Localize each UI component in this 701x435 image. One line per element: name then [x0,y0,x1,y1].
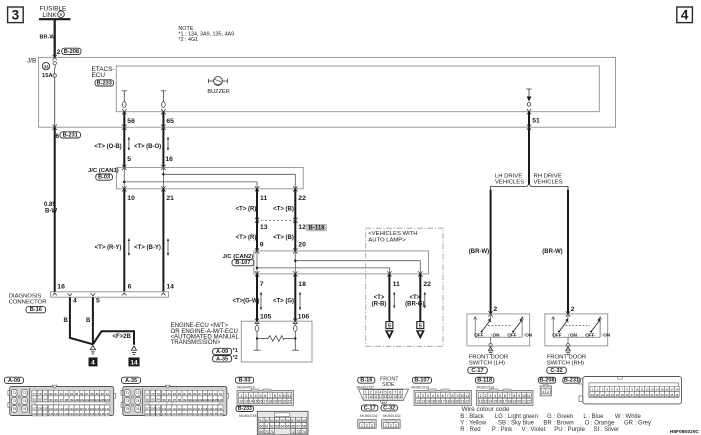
RH switch pin 2 [571,306,575,313]
LH switch pin 2 [493,306,497,313]
svg-text:C-17: C-17 [364,405,376,411]
svg-text:3: 3 [12,8,20,23]
svg-text:92: 92 [33,398,37,402]
page reference box 4 [677,7,693,23]
LH RH drive labels [495,174,563,186]
svg-text:76: 76 [136,407,140,411]
svg-text:14: 14 [130,359,138,366]
diagnosis connector caption [9,294,47,306]
svg-text:73: 73 [126,399,130,403]
svg-text:57: 57 [291,419,295,423]
twist arrow G [299,292,301,311]
svg-text:77: 77 [146,392,150,396]
svg-text:22: 22 [287,400,291,404]
connector diagram B-118 label [476,377,495,389]
svg-text:10: 10 [369,395,373,399]
wire label B left [64,318,69,324]
wire auto lamp pin 22 [419,274,421,322]
svg-text:5: 5 [259,394,261,398]
svg-text:84: 84 [70,392,74,396]
svg-text:B-03: B-03 [98,175,110,181]
svg-text:56: 56 [286,419,290,423]
svg-text:59: 59 [302,419,306,423]
svg-text:19: 19 [591,393,595,397]
connector diagram C-32 body [382,420,401,429]
svg-text:18: 18 [675,388,679,392]
svg-text:80: 80 [49,392,53,396]
connector diagram C-32 label [381,405,401,418]
svg-text:6: 6 [504,394,506,398]
svg-text:74: 74 [302,430,306,434]
joint connector J/C CAN2 box B-107 [254,251,429,274]
svg-text:BR-W: BR-W [40,35,56,41]
svg-text:15: 15 [431,400,435,404]
svg-text:A-35: A-35 [216,356,228,362]
svg-text:5: 5 [437,394,439,398]
wire pin 51 down to door switches [527,112,531,185]
svg-text:88: 88 [90,392,94,396]
svg-text:10: 10 [522,394,526,398]
svg-text:↑ON: ↑ON [490,332,500,337]
wire BR-W from fusible link to J/B [54,20,56,58]
svg-text:6: 6 [389,390,391,394]
svg-text:8: 8 [452,394,454,398]
svg-text:B-208: B-208 [539,378,554,384]
svg-text:32: 32 [655,393,659,397]
svg-text:2: 2 [485,394,487,398]
wire CAN1 pin 22 to B-118 pin 12 [294,189,296,221]
svg-text:B-208: B-208 [64,49,79,55]
svg-text:B-233: B-233 [97,80,112,86]
svg-text:SIDE: SIDE [382,382,395,388]
svg-text:58: 58 [297,419,301,423]
svg-text:93: 93 [38,398,42,402]
svg-text:124: 124 [43,412,48,416]
svg-text:69: 69 [260,430,264,434]
junction block J/B box [39,57,616,127]
connector diagram B-208 body [540,385,551,396]
svg-text:20: 20 [596,393,600,397]
svg-text:20: 20 [298,241,306,248]
svg-text:2: 2 [366,424,368,428]
wire entry crossing at J/B top [53,55,57,60]
drive split bracket [491,184,568,190]
svg-text:51: 51 [260,419,264,423]
ECU internal switch to pin 51 [526,89,531,106]
svg-text:4: 4 [681,8,689,23]
svg-text:28: 28 [636,393,640,397]
wire label B right [86,318,91,324]
svg-text:5: 5 [388,323,391,329]
svg-text:VEHICLES: VEHICLES [534,180,563,186]
svg-text:74: 74 [23,399,27,403]
svg-text:64: 64 [281,424,285,428]
svg-text:65: 65 [166,118,174,125]
svg-text:21: 21 [601,393,605,397]
svg-text:<T> (R): <T> (R) [236,207,257,213]
svg-text:71: 71 [126,391,130,395]
svg-text:10: 10 [460,394,464,398]
svg-text:15: 15 [254,400,258,404]
svg-text:5: 5 [384,390,386,394]
svg-text:A-09: A-09 [216,349,228,355]
connector diagram A-09 label [5,377,24,384]
svg-text:OFF: OFF [474,332,484,337]
svg-text:83: 83 [178,392,182,396]
svg-text:92: 92 [146,398,150,402]
svg-text:O : Orange: O : Orange [585,420,615,426]
wire label T B-O [134,144,161,150]
svg-text:106: 106 [105,398,110,402]
wire label T R-B [372,295,387,307]
svg-text:(BR-W): (BR-W) [469,249,489,255]
svg-text:MU801518: MU801518 [412,386,430,390]
svg-text:9: 9 [260,241,264,248]
wire colour code legend [460,406,651,433]
CAN2 entry crossings [255,248,298,253]
svg-text:15A: 15A [42,73,53,79]
twist arrow R-B [393,292,395,309]
svg-text:B-231: B-231 [63,132,78,138]
wire left 16 0.85 B-W [54,127,56,292]
ground wire from diagnosis pin 4 [70,297,93,344]
svg-text:<T>: <T> [374,295,385,301]
pin 9 and 20 numbers [260,241,306,248]
svg-text:98: 98 [65,398,69,402]
svg-text:99: 99 [70,398,74,402]
svg-text:B-W: B-W [45,208,57,214]
svg-text:H8F08E029C: H8F08E029C [670,429,700,435]
svg-text:SI : Silver: SI : Silver [594,427,620,433]
twist arrow R-Y [128,238,130,256]
svg-text:106: 106 [298,314,310,321]
pin 5 number [127,156,131,163]
connector diagram B-233 body [257,411,308,435]
svg-text:8: 8 [274,394,276,398]
pin numbers 7 18 [260,281,306,288]
svg-text:11: 11 [260,195,267,202]
ground symbol 14 [131,346,137,354]
svg-text:C-32: C-32 [550,368,562,374]
connector diagram C-17 body [358,420,377,429]
svg-text:<T>: <T> [409,295,420,301]
wire from fuse to J/B bottom [53,77,57,130]
svg-text:123: 123 [38,412,43,416]
svg-text:12: 12 [239,400,243,404]
front door switch SWITCH (LH) box [467,314,530,346]
svg-text:2: 2 [493,306,497,313]
svg-text:10: 10 [636,388,640,392]
svg-text:11: 11 [288,394,292,398]
svg-text:91: 91 [106,392,110,396]
svg-text:82: 82 [173,392,177,396]
diagnosis entry chevrons [53,293,166,295]
svg-text:61: 61 [265,424,269,428]
wire CAN2 to engine ECU pin 105 [256,274,258,321]
svg-text:<T> (B): <T> (B) [273,207,294,213]
svg-text:B-16: B-16 [30,307,42,313]
fusible link 6 label [40,6,67,20]
svg-text:19: 19 [512,400,516,404]
svg-text:LG : Light green: LG : Light green [495,414,538,420]
svg-text:21: 21 [166,195,174,202]
svg-text:72: 72 [23,391,27,395]
svg-text:16: 16 [398,395,402,399]
connector diagram B-231 body large [579,377,682,404]
twist arrow G-W [260,292,262,311]
wire BR-W to LH door switch [490,190,492,314]
svg-text:*1: *1 [233,348,238,354]
svg-text:13: 13 [260,224,268,231]
ground symbol 4 [90,346,96,354]
svg-text:B-03: B-03 [239,378,251,384]
diagnosis pin numbers 16 6 14 [57,284,174,291]
wire label F 2B [113,334,132,340]
svg-text:SWITCH (RH): SWITCH (RH) [547,361,584,367]
connector label B-16 oval [26,307,46,314]
svg-text:106: 106 [218,398,223,402]
svg-text:ECU: ECU [92,72,106,79]
svg-text:85: 85 [75,392,79,396]
svg-text:B: B [64,318,69,324]
pin 56 crossing and number [122,109,135,125]
svg-text:124: 124 [156,412,161,416]
svg-text:19: 19 [273,400,277,404]
svg-text:5: 5 [127,156,131,163]
svg-text:0.85: 0.85 [44,202,56,208]
svg-text:27: 27 [631,393,635,397]
svg-text:22: 22 [298,195,306,202]
svg-text:14: 14 [166,284,174,291]
svg-text:12: 12 [645,388,649,392]
svg-text:CONNECTOR: CONNECTOR [9,299,47,305]
svg-text:36: 36 [675,393,679,397]
svg-text:2: 2 [571,306,575,313]
CAN2 exit crossings [255,271,423,276]
ground reference 4 black box [89,358,97,367]
svg-text:<T> (B-Y): <T> (B-Y) [134,245,161,251]
svg-text:95: 95 [162,398,166,402]
twist arrow 65-16 [167,137,169,151]
svg-text:16: 16 [436,400,440,404]
connector diagram A-35 label [122,377,141,384]
svg-text:18: 18 [268,400,272,404]
svg-text:73: 73 [13,399,17,403]
svg-text:75: 75 [13,407,17,411]
svg-text:11: 11 [527,394,531,398]
wire label T B lower [273,235,294,241]
svg-text:BUZZER: BUZZER [207,89,229,95]
connector label C-32 [547,367,567,374]
svg-text:6: 6 [128,284,132,291]
svg-text:71: 71 [270,430,274,434]
svg-text:2: 2 [422,394,424,398]
svg-text:C-17: C-17 [471,368,483,374]
svg-text:79: 79 [157,392,161,396]
label J/C CAN2 [223,254,254,260]
svg-text:34: 34 [665,393,669,397]
drawing number [670,429,700,435]
svg-text:72: 72 [291,430,295,434]
svg-text:96: 96 [168,398,172,402]
CAN1 internal wiring [123,167,295,188]
CAN2 internal wiring [256,251,421,274]
svg-text:3: 3 [489,394,491,398]
svg-text:93: 93 [151,398,155,402]
svg-text:11: 11 [641,388,644,392]
svg-text:6: 6 [442,394,444,398]
front door switch SWITCH (RH) caption [547,355,587,367]
svg-text:23: 23 [611,393,615,397]
svg-text:1: 1 [480,394,482,398]
connector diagram B-16 body [358,389,408,403]
svg-text:18: 18 [446,400,450,404]
ECU internal terminal pin 65 [161,91,166,108]
svg-text:B-118: B-118 [477,378,492,384]
svg-text:54: 54 [275,419,279,423]
ground reference 14 black box [129,358,140,367]
engine ECU entry crossings [255,319,298,324]
off-page connector 5 left [385,322,394,340]
connector diagram B-231 label [563,377,580,383]
svg-text:<T> (G): <T> (G) [273,299,294,305]
twist arrow 56-5 [128,137,130,151]
svg-text:76: 76 [23,407,27,411]
svg-text:3: 3 [371,424,373,428]
svg-text:123: 123 [151,412,156,416]
svg-text:99: 99 [183,398,187,402]
svg-text:20: 20 [278,400,282,404]
svg-text:5: 5 [499,394,501,398]
svg-text:91: 91 [219,392,223,396]
svg-text:66: 66 [291,424,295,428]
wire label BR-W [40,35,56,41]
label ETACS-ECU [92,66,115,79]
svg-text:PU : Purple: PU : Purple [554,427,585,433]
svg-text:26: 26 [626,393,630,397]
ground under SWITCH (RH) switch [565,347,570,354]
svg-text:<T> (B): <T> (B) [273,235,294,241]
svg-text:9: 9 [456,394,458,398]
wire label T G-W [233,299,260,305]
svg-text:<T> (R-Y): <T> (R-Y) [95,245,122,251]
svg-text:B : Black: B : Black [460,414,485,420]
svg-text:84: 84 [183,392,187,396]
svg-text:24: 24 [616,393,620,397]
svg-text:89: 89 [209,392,213,396]
connector label B-233 [95,80,114,87]
svg-text:12: 12 [416,400,420,404]
svg-text:<T> (R): <T> (R) [236,235,257,241]
svg-text:4: 4 [432,394,434,398]
svg-text:17: 17 [670,388,674,392]
joint connector J/C CAN1 box B-03 [116,167,303,188]
svg-text:85: 85 [188,392,192,396]
svg-text:75: 75 [126,407,130,411]
svg-text:55: 55 [281,419,285,423]
svg-text:90: 90 [101,392,105,396]
svg-text:65: 65 [286,424,290,428]
svg-text:3: 3 [375,390,377,394]
svg-text:J/C (CAN2): J/C (CAN2) [223,254,254,260]
svg-text:1: 1 [365,390,367,394]
svg-text:122: 122 [145,412,150,416]
svg-text:16: 16 [165,156,173,163]
svg-text:V : Violet: V : Violet [522,427,546,433]
svg-text:62: 62 [270,424,274,428]
svg-text:R : Red: R : Red [460,427,480,433]
wire label T G [273,299,294,305]
svg-text:14: 14 [655,388,659,392]
svg-text:17: 17 [441,400,445,404]
svg-text:30: 30 [646,393,650,397]
svg-text:86: 86 [193,392,197,396]
pin numbers 11 22 auto lamp [393,281,432,288]
svg-text:10: 10 [127,195,135,202]
svg-text:15: 15 [493,400,497,404]
svg-text:81: 81 [54,392,58,396]
auto lamp caption [368,231,417,244]
jumper wire to ground 14 [93,331,134,345]
twist arrow B-Y [167,238,169,256]
pin 65 crossing and number [161,109,174,125]
connector diagram B-03 label [236,377,255,389]
wire label 6 B-231 [55,132,80,140]
svg-text:67: 67 [297,424,301,428]
svg-text:63: 63 [275,424,279,428]
svg-text:MU804786: MU804786 [239,414,257,418]
svg-text:16: 16 [258,400,262,404]
svg-text:95: 95 [49,398,53,402]
svg-text:15: 15 [393,395,397,399]
svg-text:1: 1 [385,424,387,428]
pin 51 crossing and number [527,109,540,124]
svg-text:2: 2 [547,390,549,394]
svg-text:14: 14 [388,395,392,399]
svg-text:SWITCH (LH): SWITCH (LH) [469,361,505,367]
svg-text:(R-B): (R-B) [372,301,387,307]
svg-text:22: 22 [423,281,431,288]
svg-text:12: 12 [298,224,306,231]
svg-text:78: 78 [151,392,155,396]
svg-text:33: 33 [660,393,664,397]
engine ECU box [241,321,312,362]
svg-text:90: 90 [214,392,218,396]
wire auto lamp pin 11 [388,274,390,322]
svg-text:C-32: C-32 [383,405,395,411]
svg-text:GR : Grey: GR : Grey [624,420,651,426]
svg-text:4: 4 [255,394,257,398]
wire CAN1 to diagnosis pin 6 [123,189,125,292]
svg-text:(BR-G): (BR-G) [405,301,424,307]
svg-text:11: 11 [465,394,469,398]
svg-text:J/C (CAN1): J/C (CAN1) [88,168,119,174]
svg-text:72: 72 [136,391,140,395]
svg-text:B-16: B-16 [360,378,372,384]
note text [178,26,234,43]
svg-text:70: 70 [265,430,269,434]
diagnosis bottom chevrons pins 4 5 [68,293,100,304]
front door switch SWITCH (LH) caption [469,355,509,367]
svg-text:P : Pink: P : Pink [492,427,514,433]
svg-text:1: 1 [240,394,242,398]
svg-text:73: 73 [296,430,300,434]
svg-text:81: 81 [168,392,172,396]
svg-text:5: 5 [419,323,422,329]
front door switch SWITCH (RH) box [545,314,608,346]
svg-text:BR : Brown: BR : Brown [543,420,573,426]
svg-text:4: 4 [494,394,496,398]
